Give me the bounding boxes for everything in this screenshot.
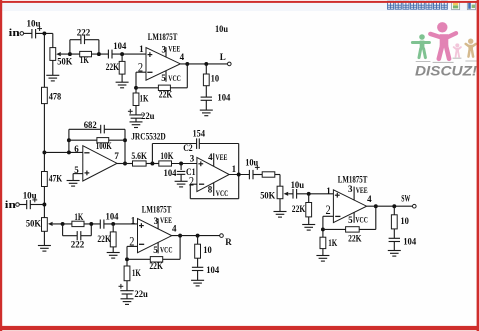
- svg-text:in: in: [5, 200, 17, 211]
- svg-text:7: 7: [114, 151, 119, 161]
- svg-text:10u: 10u: [27, 18, 41, 28]
- svg-text:104: 104: [106, 211, 119, 221]
- svg-text:682: 682: [84, 120, 97, 130]
- svg-text:VCC: VCC: [216, 189, 229, 198]
- svg-text:3: 3: [190, 153, 195, 163]
- svg-text:4: 4: [172, 224, 177, 234]
- svg-text:VEE: VEE: [356, 186, 368, 195]
- svg-text:VCC: VCC: [355, 215, 368, 224]
- svg-text:VEE: VEE: [160, 216, 172, 225]
- svg-text:3: 3: [348, 184, 353, 194]
- svg-text:6: 6: [74, 144, 79, 154]
- svg-text:22u: 22u: [141, 111, 155, 121]
- svg-text:222: 222: [77, 28, 91, 38]
- svg-text:104: 104: [403, 237, 416, 247]
- svg-text:5: 5: [74, 165, 79, 175]
- svg-text:104: 104: [164, 168, 177, 178]
- svg-text:1K: 1K: [328, 238, 337, 248]
- svg-text:22K: 22K: [292, 204, 306, 214]
- svg-text:104: 104: [113, 41, 126, 51]
- svg-text:in: in: [9, 28, 21, 39]
- svg-text:4: 4: [180, 52, 185, 62]
- svg-text:104: 104: [206, 265, 219, 275]
- svg-text:22K: 22K: [159, 89, 173, 99]
- svg-text:2: 2: [189, 175, 194, 189]
- svg-text:4: 4: [367, 194, 372, 204]
- svg-text:1: 1: [232, 164, 237, 174]
- svg-text:R: R: [225, 237, 232, 247]
- svg-text:5: 5: [153, 245, 158, 255]
- svg-text:10: 10: [400, 216, 409, 226]
- svg-text:10u: 10u: [291, 180, 305, 190]
- svg-text:154: 154: [193, 129, 206, 139]
- svg-text:1K: 1K: [80, 55, 89, 65]
- svg-text:10: 10: [211, 73, 220, 83]
- svg-text:2: 2: [138, 60, 143, 74]
- svg-text:1K: 1K: [140, 94, 149, 104]
- svg-text:22K: 22K: [106, 62, 120, 72]
- svg-text:8: 8: [208, 185, 213, 195]
- svg-text:SW: SW: [401, 194, 410, 204]
- svg-text:104: 104: [217, 93, 230, 103]
- svg-text:3: 3: [162, 44, 167, 54]
- svg-text:22K: 22K: [149, 261, 163, 271]
- svg-text:5.6K: 5.6K: [131, 151, 147, 161]
- svg-text:222: 222: [71, 239, 85, 249]
- svg-text:L: L: [220, 52, 226, 62]
- svg-text:3: 3: [154, 216, 159, 226]
- svg-text:50K: 50K: [26, 219, 41, 229]
- svg-text:C2: C2: [183, 143, 193, 153]
- svg-text:LM1875T: LM1875T: [142, 204, 172, 214]
- svg-text:47K: 47K: [49, 174, 63, 184]
- svg-text:1: 1: [139, 44, 144, 54]
- svg-text:50K: 50K: [57, 56, 72, 66]
- svg-text:22K: 22K: [97, 234, 111, 244]
- svg-text:1K: 1K: [132, 268, 141, 278]
- svg-text:2: 2: [129, 234, 134, 248]
- svg-text:JRC5532D: JRC5532D: [131, 131, 166, 141]
- svg-text:1: 1: [131, 215, 136, 225]
- svg-text:LM1875T: LM1875T: [338, 175, 368, 185]
- svg-text:10u: 10u: [23, 190, 37, 200]
- svg-text:5: 5: [161, 73, 166, 83]
- svg-text:50K: 50K: [260, 191, 275, 201]
- svg-text:VCC: VCC: [168, 74, 181, 83]
- svg-text:LM1875T: LM1875T: [148, 32, 178, 42]
- svg-text:VEE: VEE: [168, 44, 180, 53]
- svg-text:VCC: VCC: [160, 246, 173, 255]
- svg-text:10u: 10u: [245, 157, 258, 167]
- svg-text:2: 2: [326, 203, 331, 217]
- svg-text:22K: 22K: [348, 233, 362, 243]
- svg-text:DISCUZ!: DISCUZ!: [415, 64, 478, 79]
- svg-text:10u: 10u: [215, 24, 228, 34]
- svg-text:478: 478: [49, 92, 62, 102]
- svg-text:1K: 1K: [74, 212, 83, 222]
- svg-text:4: 4: [208, 152, 213, 162]
- svg-text:5: 5: [348, 215, 353, 225]
- svg-text:10K: 10K: [160, 151, 173, 161]
- svg-text:10: 10: [203, 245, 212, 255]
- svg-text:1: 1: [326, 186, 331, 196]
- svg-text:100K: 100K: [96, 141, 112, 151]
- svg-text:VEE: VEE: [215, 153, 227, 162]
- svg-text:22u: 22u: [134, 289, 148, 299]
